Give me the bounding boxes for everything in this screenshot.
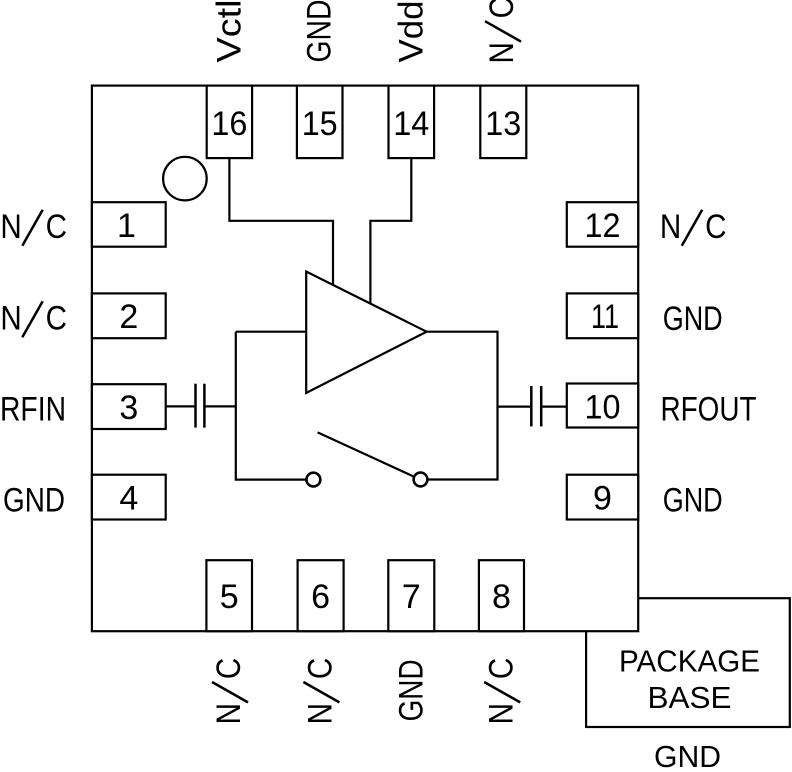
pin 13 (N/C) (480, 0, 526, 158)
svg-text:GND: GND (3, 481, 65, 519)
svg-text:1: 1 (117, 207, 136, 245)
pin 5 (N/C) (206, 560, 252, 724)
pin 4 (GND) (3, 475, 166, 520)
svg-text:8: 8 (492, 578, 511, 616)
svg-text:C: C (301, 658, 339, 679)
svg-text:N: N (209, 703, 247, 724)
svg-text:N: N (0, 298, 21, 336)
svg-text:Vdd: Vdd (392, 1, 430, 63)
svg-text:15: 15 (302, 105, 338, 143)
pin 6 (N/C) (298, 560, 344, 724)
capacitor C2 (RFOUT coupling) (531, 386, 567, 426)
svg-text:C: C (46, 298, 67, 336)
svg-text:GND: GND (663, 481, 723, 519)
svg-text:RFIN: RFIN (0, 391, 66, 429)
pin 10 (RFOUT) (567, 384, 757, 429)
pin-1 indicator circle (163, 157, 207, 201)
pin 9 (GND) (567, 475, 723, 520)
svg-text:RFOUT: RFOUT (661, 391, 757, 429)
svg-text:GND: GND (654, 739, 721, 772)
wire input node vertical to switch (236, 332, 307, 480)
svg-text:C: C (481, 658, 519, 679)
svg-text:9: 9 (593, 480, 612, 518)
wire Vdd: pin 14 to amplifier top edge (370, 158, 411, 304)
switch SW1 (307, 432, 428, 486)
pin 14 (Vdd) (389, 1, 435, 159)
svg-text:C: C (705, 207, 726, 245)
svg-text:6: 6 (311, 578, 330, 616)
svg-text:GND: GND (301, 0, 339, 63)
pin 7 (GND) (388, 560, 434, 721)
svg-text:16: 16 (211, 105, 247, 143)
svg-text:11: 11 (591, 298, 619, 336)
pin 3 (RFIN) (0, 384, 166, 429)
pin 2 (N/C) (0, 293, 165, 338)
svg-text:C: C (46, 207, 67, 245)
op-amp amplifier triangle (306, 272, 426, 393)
svg-text:14: 14 (393, 105, 429, 143)
capacitor C1 (RFIN coupling) (166, 384, 236, 428)
pin 15 (GND) (297, 0, 343, 158)
svg-text:12: 12 (585, 207, 621, 245)
svg-text:BASE: BASE (648, 680, 732, 715)
pin 8 (N/C) (479, 560, 524, 724)
svg-text:N: N (0, 207, 21, 245)
svg-text:C: C (482, 0, 520, 18)
svg-text:PACKAGE: PACKAGE (619, 643, 760, 678)
svg-text:N: N (482, 42, 520, 63)
svg-text:5: 5 (220, 578, 239, 616)
package outline (92, 86, 638, 632)
pin 12 (N/C) (567, 202, 727, 247)
svg-text:Vctl: Vctl (210, 0, 248, 63)
package base box (586, 598, 790, 727)
svg-text:10: 10 (585, 389, 621, 427)
pin 16 (Vctl) (207, 0, 252, 158)
svg-text:7: 7 (402, 578, 421, 616)
wire amp output (427, 332, 498, 480)
wire output node to capacitor (498, 406, 531, 408)
svg-text:N: N (660, 207, 681, 245)
svg-text:C: C (209, 658, 247, 679)
svg-text:GND: GND (663, 300, 723, 338)
svg-text:13: 13 (485, 105, 521, 143)
wire amp input (236, 331, 306, 333)
svg-text:4: 4 (119, 480, 138, 518)
svg-text:N: N (301, 703, 339, 724)
pin 1 (N/C) (0, 202, 165, 247)
svg-text:GND: GND (392, 659, 430, 721)
pin 11 (GND) (567, 293, 723, 338)
svg-text:3: 3 (119, 389, 138, 427)
svg-text:N: N (481, 703, 519, 724)
wire Vctl: pin 16 to amplifier top edge (229, 158, 333, 285)
svg-text:2: 2 (119, 298, 138, 336)
